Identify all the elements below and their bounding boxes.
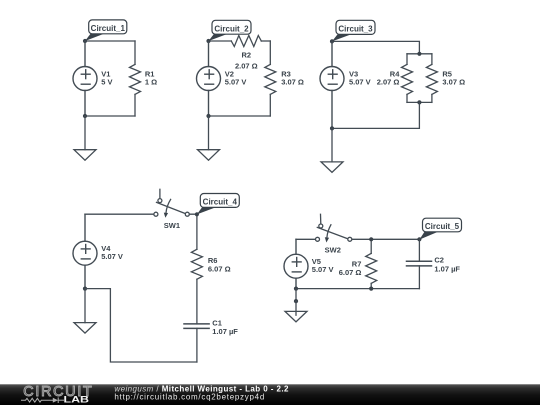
- voltage source V4: [73, 214, 97, 288]
- junction node: [417, 100, 421, 104]
- svg-text:3.07 Ω: 3.07 Ω: [281, 77, 304, 86]
- junction node: [206, 114, 210, 118]
- wire top rail circuit 1: [85, 40, 135, 42]
- svg-text:5.07 V: 5.07 V: [101, 252, 123, 261]
- voltage source V3: [320, 41, 344, 128]
- switch SW2: [316, 214, 352, 242]
- footer background: [0, 384, 540, 405]
- svg-text:Circuit_4: Circuit_4: [203, 198, 238, 207]
- junction node: [294, 299, 298, 303]
- resistor R2: [231, 36, 270, 47]
- V4 value labels: [101, 244, 123, 261]
- svg-text:http://circuitlab.com/cq2betep: http://circuitlab.com/cq2betepzyp4d: [114, 392, 265, 401]
- resistor R5: [426, 54, 437, 103]
- R3 value labels: [281, 69, 304, 86]
- junction node: [417, 52, 421, 56]
- junction node: [417, 237, 421, 241]
- ground circuit 5: [285, 301, 307, 322]
- wire right drop circuit 3: [332, 102, 419, 128]
- voltage source V5: [284, 239, 308, 288]
- V2 value labels: [225, 69, 247, 86]
- svg-text:6.07 Ω: 6.07 Ω: [208, 264, 231, 273]
- junction node: [83, 287, 87, 291]
- R6 value labels: [208, 256, 231, 274]
- junction node: [330, 126, 334, 130]
- svg-text:Circuit_1: Circuit_1: [91, 24, 126, 33]
- svg-text:1.07 µF: 1.07 µF: [212, 327, 238, 336]
- wire top rail circuit 3: [332, 41, 419, 53]
- wire switch to caps rail: [352, 238, 420, 240]
- R4 value labels: [377, 69, 401, 86]
- ground circuit 4: [74, 289, 96, 334]
- voltage source V2: [197, 41, 221, 116]
- node label Circuit_3: [332, 20, 375, 41]
- svg-text:SW2: SW2: [325, 245, 341, 254]
- junction node: [369, 237, 373, 241]
- junction node: [83, 114, 87, 118]
- junction node: [330, 39, 334, 43]
- ground circuit 2: [198, 116, 220, 160]
- svg-text:Circuit_5: Circuit_5: [425, 222, 460, 231]
- svg-text:LAB: LAB: [64, 395, 90, 405]
- capacitor C1: [184, 324, 209, 362]
- wire bottom rail circuit 2: [209, 115, 271, 117]
- switch SW1: [154, 189, 189, 218]
- ground circuit 1: [74, 116, 96, 160]
- wire bottom route circuit 4: [85, 289, 197, 362]
- logo resistor-diode symbol: [22, 398, 64, 403]
- svg-text:2.07 Ω: 2.07 Ω: [235, 62, 258, 71]
- wire bottom rail circuit 1: [85, 115, 135, 117]
- V3 value labels: [349, 69, 371, 86]
- junction node: [294, 287, 298, 291]
- node label Circuit_4: [195, 194, 240, 217]
- resistor R3: [265, 41, 276, 116]
- svg-text:3.07 Ω: 3.07 Ω: [442, 77, 465, 86]
- svg-text:1 Ω: 1 Ω: [145, 77, 157, 86]
- svg-text:5.07 V: 5.07 V: [312, 265, 334, 274]
- R5 value labels: [442, 69, 465, 86]
- wire parallel bottom bar: [407, 101, 432, 103]
- R7 value labels: [339, 259, 362, 277]
- node label Circuit_1: [85, 20, 127, 41]
- ground circuit 3: [321, 128, 343, 172]
- resistor R6: [191, 249, 202, 324]
- junction node: [206, 39, 210, 43]
- wire switch to R6: [189, 214, 197, 249]
- wire bottom rail circuit 5: [296, 288, 419, 290]
- svg-text:Circuit_2: Circuit_2: [214, 24, 249, 33]
- junction node: [369, 287, 373, 291]
- C1 value labels: [212, 319, 238, 336]
- svg-text:SW1: SW1: [164, 221, 180, 230]
- svg-text:Circuit_3: Circuit_3: [338, 24, 373, 33]
- resistor R4: [402, 54, 413, 103]
- V1 value labels: [101, 69, 112, 86]
- voltage source V1: [73, 41, 97, 116]
- resistor R1: [130, 41, 141, 116]
- svg-text:6.07 Ω: 6.07 Ω: [339, 268, 362, 277]
- svg-text:1.07 µF: 1.07 µF: [434, 264, 460, 273]
- wire parallel top bar: [407, 53, 432, 55]
- svg-text:2.07 Ω: 2.07 Ω: [377, 77, 400, 86]
- wire top rail circuit 4: [85, 213, 155, 215]
- C2 value labels: [434, 256, 460, 274]
- svg-text:5.07 V: 5.07 V: [225, 77, 247, 86]
- wire top-left circuit 2: [209, 40, 232, 42]
- node label Circuit_5: [419, 218, 461, 239]
- wire top rail circuit 5: [296, 238, 316, 240]
- R2 value labels: [235, 50, 258, 70]
- junction node: [83, 39, 87, 43]
- capacitor C2: [407, 239, 432, 288]
- node label Circuit_2: [209, 20, 252, 41]
- R1 value labels: [145, 69, 157, 86]
- resistor R7: [366, 239, 377, 288]
- svg-text:5.07 V: 5.07 V: [349, 77, 371, 86]
- V5 value labels: [312, 257, 334, 274]
- svg-text:R2: R2: [242, 50, 252, 59]
- svg-text:5 V: 5 V: [101, 77, 112, 86]
- wire to ground circuit 5: [295, 289, 297, 302]
